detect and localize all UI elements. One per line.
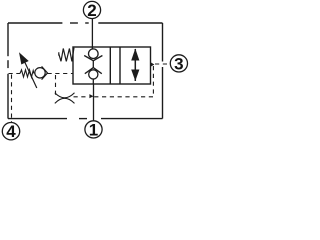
pilot tap from right cell toward port 3 (junction arrow): [151, 62, 155, 66]
relief adjustment arrow: [19, 52, 37, 88]
envelope right edge: [162, 23, 164, 119]
relief valve ball: [35, 68, 45, 78]
wire: box bottom to port 1: [93, 84, 95, 121]
pilot line: relief output down-leg (dashed): [54, 75, 56, 97]
pilot line: relief output to main box (dashed): [48, 73, 74, 75]
svg-text:2: 2: [87, 1, 96, 20]
pilot line: orifice to port-1 line (dashed): [74, 96, 89, 98]
port 1 circle: [85, 121, 102, 138]
check valve CV2 seat: [85, 68, 102, 74]
relief valve seat: [42, 66, 48, 79]
flow arrow (bidirectional) in right cell: [131, 49, 139, 82]
check valve CV1 seat: [84, 56, 102, 61]
wire between CV1 and CV2: [92, 61, 94, 68]
relief valve inlet dashes from envelope edge: [9, 73, 21, 75]
port 3 circle: [170, 55, 187, 72]
port 2 circle: [83, 1, 100, 18]
envelope (cartridge boundary, long-dash) top edge: [8, 22, 163, 24]
port 4 circle: [2, 123, 19, 140]
main valve body box: [73, 47, 151, 84]
pilot drain line to port 4 (dashed): [11, 75, 13, 123]
pilot line: junction down-leg (dashed): [94, 66, 153, 97]
relief valve spring: [20, 70, 34, 77]
pilot line: junction to port 3 (dashed): [155, 63, 170, 65]
spring (main poppet bias): [59, 48, 74, 62]
check valve CV1 ball: [89, 49, 99, 59]
check valve CV2 ball: [89, 70, 98, 79]
wire: CV2 to box bottom: [92, 79, 94, 84]
pilot junction arrow into port-1 line: [89, 94, 93, 98]
envelope left edge: [7, 23, 9, 119]
wire: port 2 to check valve CV1: [91, 19, 93, 50]
svg-text:3: 3: [174, 54, 183, 73]
envelope bottom edge: [8, 118, 163, 120]
svg-text:4: 4: [6, 122, 16, 141]
svg-text:1: 1: [89, 120, 98, 139]
orifice (viscous restriction): [55, 93, 75, 104]
